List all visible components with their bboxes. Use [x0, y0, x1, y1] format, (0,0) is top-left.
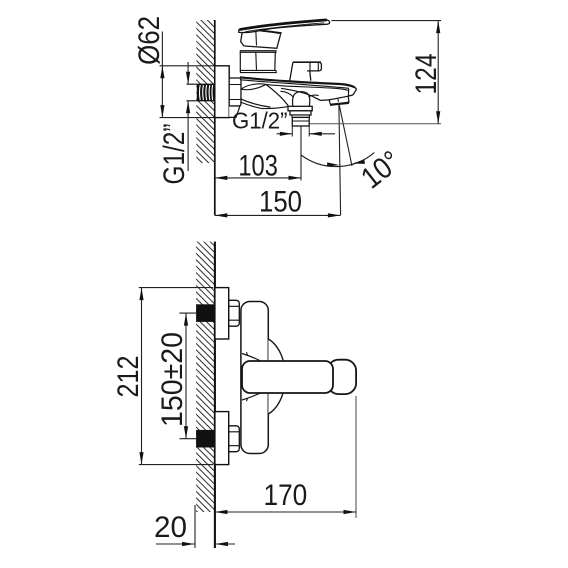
svg-text:150: 150: [259, 186, 302, 219]
outlet centerline extension (103): [300, 126, 302, 181]
extension line top (O62): [160, 65, 215, 67]
nipple 2 (plan): [196, 430, 214, 448]
body underside swoop b: [240, 102, 261, 108]
spout mid line: [266, 84, 349, 90]
connection nut (side view): [229, 78, 241, 106]
escutcheon 1 (plan): [215, 288, 229, 339]
extension line bottom (O62): [160, 117, 215, 119]
svg-text:Ø62: Ø62: [133, 16, 166, 65]
diverter stem (side view): [290, 62, 311, 80]
angle leg tilted 10 deg: [339, 105, 352, 166]
sweep curve to outlet: [266, 84, 289, 106]
dimension 150: [215, 214, 341, 216]
angle leg vertical (150 ref): [339, 105, 341, 216]
nut 2 (plan): [229, 426, 240, 452]
dimension 20 (wall thickness): [156, 543, 195, 545]
svg-text:20: 20: [154, 511, 187, 544]
svg-text:150±20: 150±20: [156, 332, 189, 427]
aerator: [329, 96, 349, 105]
escutcheon (side view): [215, 66, 229, 118]
faucet body (plan view): [241, 302, 268, 454]
handle base block (side view): [241, 29, 281, 48]
nut 1 (plan): [229, 300, 240, 326]
handle grip (plan): [328, 360, 357, 394]
extension lines for outlet thread G1/2: [291, 126, 293, 137]
handle tip extension (170): [355, 396, 357, 518]
wall hatching (side view): [196, 20, 215, 163]
threaded nipple (side view): [187, 83, 215, 85]
extension line 124 bottom: [310, 123, 442, 125]
wall hatching (plan view): [196, 242, 215, 512]
neck (side view): [240, 52, 275, 70]
svg-text:G1/2”: G1/2”: [158, 124, 191, 185]
body underside swoop a: [240, 99, 270, 107]
outlet boss cylinder: [293, 92, 310, 107]
svg-text:170: 170: [264, 479, 308, 512]
dimension arrows outlet G1/2: [277, 133, 293, 135]
dimension line 150+-20: [185, 313, 187, 439]
spout end cap left edge: [347, 88, 349, 96]
dimension line O62: [161, 32, 163, 118]
svg-text:212: 212: [112, 356, 145, 398]
svg-text:G1/2”: G1/2”: [232, 108, 288, 134]
diverter knob top bar (side view): [293, 61, 321, 63]
boss fillet left: [280, 91, 293, 97]
extension line 212 top: [139, 287, 213, 289]
diverter knob barrel: [307, 62, 321, 71]
extension line 150+-20 top: [179, 312, 196, 314]
faucet body with spout (side view): [240, 77, 356, 108]
dimension line 212: [141, 288, 143, 465]
extension line 212 bottom: [139, 464, 213, 466]
neck collar: [240, 51, 276, 53]
neck base flange: [240, 71, 276, 73]
angle arc 10 deg: [301, 153, 374, 167]
dimension line 124: [437, 21, 439, 124]
handle arm (plan): [242, 361, 333, 393]
shower outlet stack (side view): [288, 106, 312, 111]
spout top second line: [241, 80, 349, 89]
svg-text:124: 124: [410, 54, 443, 95]
extension line 124 top: [332, 20, 442, 22]
cartridge dome (plan): [268, 339, 284, 414]
collar arcs (plan): [242, 354, 262, 362]
body top leaf: [241, 84, 265, 90]
boss fillet right: [309, 95, 319, 97]
dimension 170: [215, 511, 356, 513]
extension line 150+-20 bottom: [179, 438, 196, 440]
escutcheon 2 (plan): [215, 412, 229, 465]
wall face line (side view): [214, 20, 216, 215]
wall face line (plan view): [214, 242, 216, 548]
handle lever blade (side view): [239, 20, 330, 33]
svg-text:103: 103: [238, 150, 278, 183]
blade reveal curve: [260, 31, 280, 34]
dimension line G1/2 (wall nipple): [187, 62, 189, 84]
spout end cap right: [348, 87, 356, 96]
wall back line below hatch (20 dim extension): [194, 505, 196, 548]
body bottom contour: [261, 107, 288, 109]
spout top edge (thick): [240, 77, 355, 87]
nipple 1 (plan): [196, 304, 214, 322]
spout underside: [281, 88, 329, 100]
dimension 103: [215, 177, 301, 179]
under-nut piece: [229, 106, 240, 117]
